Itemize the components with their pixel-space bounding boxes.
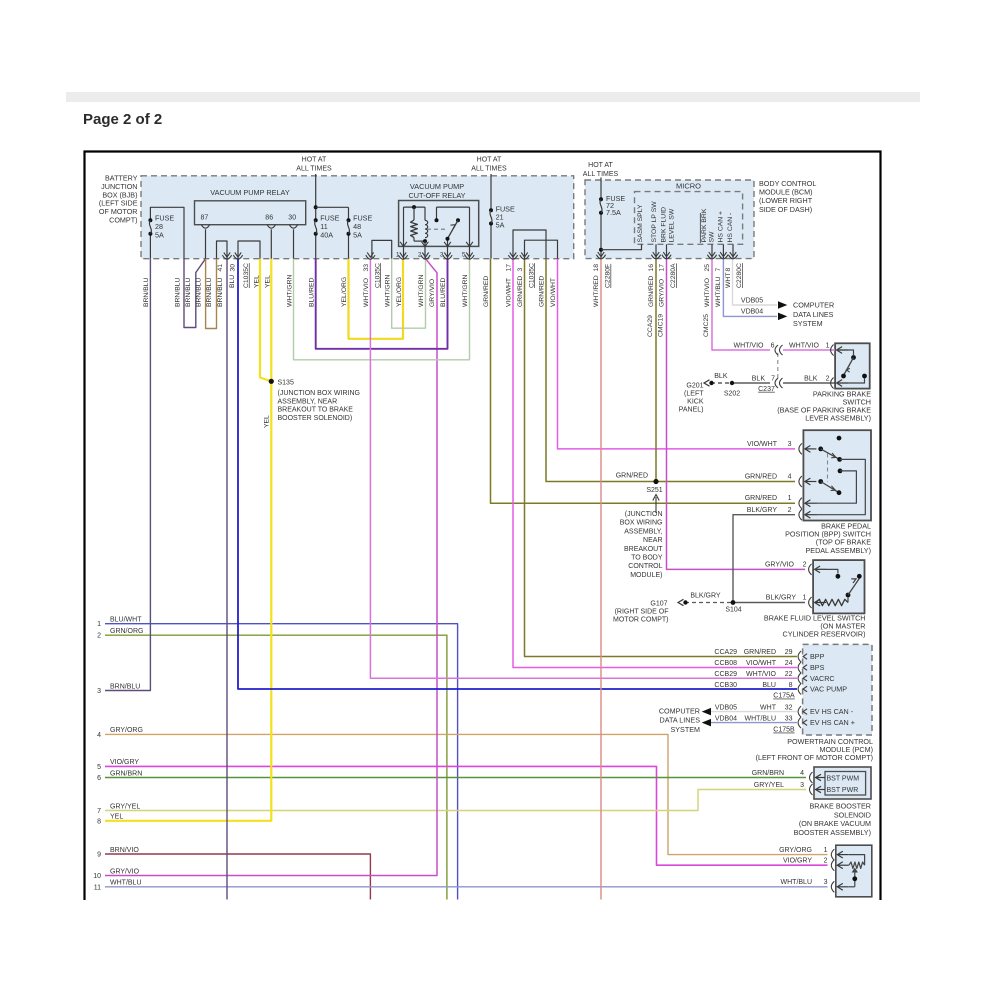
svg-text:EV HS CAN -: EV HS CAN - xyxy=(810,707,854,716)
svg-text:GRY/VIO: GRY/VIO xyxy=(659,279,666,307)
svg-text:(RIGHT SIDE OF: (RIGHT SIDE OF xyxy=(615,609,669,616)
svg-text:GRN/BRN: GRN/BRN xyxy=(752,770,784,777)
svg-text:MODULE): MODULE) xyxy=(630,572,662,579)
svg-text:C237: C237 xyxy=(758,386,775,393)
svg-text:4: 4 xyxy=(97,732,101,739)
svg-text:17: 17 xyxy=(659,264,666,272)
svg-text:87: 87 xyxy=(201,215,209,222)
svg-text:GRY/VIO: GRY/VIO xyxy=(110,868,140,875)
svg-text:CUT-OFF RELAY: CUT-OFF RELAY xyxy=(408,191,465,200)
svg-text:EV HS CAN +: EV HS CAN + xyxy=(810,718,855,727)
svg-text:BLU: BLU xyxy=(762,682,776,689)
svg-text:10: 10 xyxy=(93,873,101,880)
svg-text:VDB05: VDB05 xyxy=(741,297,763,304)
svg-text:C1035C: C1035C xyxy=(528,263,535,288)
svg-text:G201: G201 xyxy=(686,382,703,389)
svg-text:22: 22 xyxy=(785,671,793,678)
svg-text:BOX WIRING: BOX WIRING xyxy=(620,520,663,527)
svg-text:BRN/BLU: BRN/BLU xyxy=(175,277,182,307)
svg-text:BRN/VIO: BRN/VIO xyxy=(110,847,139,854)
svg-text:VACUUM PUMP: VACUUM PUMP xyxy=(410,182,464,191)
svg-text:6: 6 xyxy=(771,342,775,349)
svg-text:(ON BRAKE VACUUM: (ON BRAKE VACUUM xyxy=(799,819,871,828)
svg-text:COMPUTER: COMPUTER xyxy=(793,301,834,310)
svg-text:SW: SW xyxy=(708,231,715,243)
svg-text:WHT/GRN: WHT/GRN xyxy=(385,274,392,307)
svg-text:BLK: BLK xyxy=(752,375,766,382)
svg-text:DATA LINES: DATA LINES xyxy=(793,310,834,319)
svg-text:GRN/RED: GRN/RED xyxy=(539,276,546,307)
svg-text:COMPT): COMPT) xyxy=(109,216,137,225)
svg-text:5A: 5A xyxy=(353,230,362,239)
svg-text:LEVER ASSEMBLY): LEVER ASSEMBLY) xyxy=(805,414,871,423)
svg-text:86: 86 xyxy=(265,215,273,222)
svg-text:GRY/YEL: GRY/YEL xyxy=(110,803,140,810)
svg-text:BPS: BPS xyxy=(810,663,825,672)
svg-text:VAC PUMP: VAC PUMP xyxy=(810,685,847,694)
svg-text:MOTOR COMPT): MOTOR COMPT) xyxy=(613,617,668,624)
svg-text:7: 7 xyxy=(715,268,722,272)
svg-text:WHT/VIO: WHT/VIO xyxy=(363,278,370,307)
svg-text:CMC19: CMC19 xyxy=(657,314,664,337)
svg-text:BLU/RED: BLU/RED xyxy=(440,277,447,307)
svg-text:8: 8 xyxy=(97,818,101,825)
svg-text:11: 11 xyxy=(94,884,101,891)
svg-text:BST PWR: BST PWR xyxy=(827,787,859,794)
svg-text:(JUNCTION: (JUNCTION xyxy=(625,511,663,518)
svg-text:WHT/VIO: WHT/VIO xyxy=(704,278,711,307)
svg-text:WHT: WHT xyxy=(725,273,732,288)
svg-text:9: 9 xyxy=(97,852,101,859)
svg-text:HS CAN +: HS CAN + xyxy=(717,211,724,243)
svg-text:3: 3 xyxy=(824,879,828,886)
svg-text:CCB30: CCB30 xyxy=(714,682,737,689)
svg-text:4: 4 xyxy=(788,473,792,480)
svg-text:GRN/RED: GRN/RED xyxy=(745,473,777,480)
svg-text:32: 32 xyxy=(785,704,793,711)
svg-text:HOT AT: HOT AT xyxy=(588,162,613,169)
svg-text:8: 8 xyxy=(725,268,732,272)
svg-text:GRN/RED: GRN/RED xyxy=(648,276,655,307)
svg-text:WHT/BLU: WHT/BLU xyxy=(745,715,777,722)
svg-text:SIDE OF DASH): SIDE OF DASH) xyxy=(759,205,812,214)
svg-text:CMC25: CMC25 xyxy=(703,314,710,337)
svg-text:WHT/VIO: WHT/VIO xyxy=(789,342,819,349)
svg-text:17: 17 xyxy=(506,264,513,272)
svg-text:3: 3 xyxy=(788,441,792,448)
svg-text:WHT: WHT xyxy=(760,704,777,711)
svg-text:16: 16 xyxy=(648,264,655,272)
svg-text:GRN/BRN: GRN/BRN xyxy=(110,770,142,777)
svg-text:PEDAL ASSEMBLY): PEDAL ASSEMBLY) xyxy=(805,546,871,555)
svg-text:4: 4 xyxy=(800,770,804,777)
svg-text:ASSEMBLY, NEAR: ASSEMBLY, NEAR xyxy=(278,398,338,405)
svg-text:STOP LP SW: STOP LP SW xyxy=(651,201,658,243)
svg-text:YEL: YEL xyxy=(253,275,260,288)
svg-text:SYSTEM: SYSTEM xyxy=(793,319,823,328)
svg-text:GRN/RED: GRN/RED xyxy=(744,649,776,656)
svg-text:ALL TIMES: ALL TIMES xyxy=(296,166,332,173)
svg-text:VIO/GRY: VIO/GRY xyxy=(783,858,812,865)
svg-text:BRN/BLU: BRN/BLU xyxy=(196,277,203,307)
svg-text:BLU/RED: BLU/RED xyxy=(309,277,316,307)
svg-text:BLK/GRY: BLK/GRY xyxy=(690,593,721,600)
svg-text:CONTROL: CONTROL xyxy=(628,563,662,570)
svg-text:LEVEL SW: LEVEL SW xyxy=(668,208,675,242)
svg-text:1: 1 xyxy=(396,252,400,259)
svg-text:WHT/BLU: WHT/BLU xyxy=(781,879,813,886)
svg-text:GRY/VIO: GRY/VIO xyxy=(765,561,795,568)
svg-text:33: 33 xyxy=(785,715,793,722)
svg-text:C175B: C175B xyxy=(773,727,795,734)
svg-text:COMPUTER: COMPUTER xyxy=(659,707,700,716)
svg-text:C1035C: C1035C xyxy=(243,263,250,288)
svg-text:CCA29: CCA29 xyxy=(647,315,654,337)
svg-text:SYSTEM: SYSTEM xyxy=(670,725,700,734)
svg-text:HOT AT: HOT AT xyxy=(302,157,327,164)
svg-text:YEL: YEL xyxy=(264,275,271,288)
svg-text:7: 7 xyxy=(97,808,101,815)
svg-text:KICK: KICK xyxy=(687,399,704,406)
svg-text:2: 2 xyxy=(824,858,828,865)
svg-text:5A: 5A xyxy=(496,221,505,230)
svg-text:G107: G107 xyxy=(650,601,667,608)
svg-text:5: 5 xyxy=(97,764,101,771)
svg-text:WHT/BLU: WHT/BLU xyxy=(715,276,722,307)
svg-text:3: 3 xyxy=(97,688,101,695)
svg-text:BLU/WHT: BLU/WHT xyxy=(110,617,142,624)
svg-text:YEL: YEL xyxy=(110,814,123,821)
svg-text:WHT/BLU: WHT/BLU xyxy=(110,880,142,887)
svg-text:BRN/BLU: BRN/BLU xyxy=(185,277,192,307)
svg-text:1: 1 xyxy=(826,342,830,349)
svg-text:VIO/WHT: VIO/WHT xyxy=(747,441,778,448)
svg-text:2: 2 xyxy=(803,561,807,568)
svg-text:VIO/WHT: VIO/WHT xyxy=(746,660,777,667)
svg-text:YEL: YEL xyxy=(264,415,271,428)
svg-text:29: 29 xyxy=(785,649,793,656)
svg-text:GRY/ORG: GRY/ORG xyxy=(779,847,812,854)
svg-text:GRN/RED: GRN/RED xyxy=(517,276,524,307)
svg-text:PARK BRK: PARK BRK xyxy=(701,208,708,242)
svg-text:Page 2 of 2: Page 2 of 2 xyxy=(83,111,162,128)
svg-text:5A: 5A xyxy=(155,230,164,239)
svg-text:1: 1 xyxy=(824,847,828,854)
svg-text:30: 30 xyxy=(288,215,296,222)
svg-text:BOOSTER ASSEMBLY): BOOSTER ASSEMBLY) xyxy=(794,828,871,837)
svg-text:18: 18 xyxy=(593,264,600,272)
svg-text:BLK: BLK xyxy=(804,375,818,382)
svg-text:C1035C: C1035C xyxy=(374,263,381,288)
svg-text:YEL/ORG: YEL/ORG xyxy=(396,277,403,307)
svg-text:ALL TIMES: ALL TIMES xyxy=(471,166,507,173)
svg-text:GRN/RED: GRN/RED xyxy=(745,495,777,502)
svg-text:BLK: BLK xyxy=(714,373,728,380)
svg-text:1: 1 xyxy=(97,621,101,628)
svg-text:HOT AT: HOT AT xyxy=(477,157,502,164)
svg-text:C175A: C175A xyxy=(773,693,795,700)
svg-text:2: 2 xyxy=(97,633,101,640)
svg-text:WHT/VIO: WHT/VIO xyxy=(746,671,776,678)
svg-text:CCB29: CCB29 xyxy=(714,671,737,678)
svg-text:NEAR: NEAR xyxy=(643,537,662,544)
svg-text:S104: S104 xyxy=(725,607,741,614)
svg-text:S135: S135 xyxy=(278,380,294,387)
svg-text:WHT/GRN: WHT/GRN xyxy=(462,274,469,307)
svg-text:(JUNCTION BOX WIRING: (JUNCTION BOX WIRING xyxy=(278,390,360,397)
svg-text:BRN/BLU: BRN/BLU xyxy=(217,277,224,307)
svg-text:VDB04: VDB04 xyxy=(715,715,737,722)
svg-text:BRAKE BOOSTER: BRAKE BOOSTER xyxy=(809,802,871,811)
svg-text:BLK/GRY: BLK/GRY xyxy=(766,595,797,602)
svg-text:WHT/RED: WHT/RED xyxy=(593,275,600,307)
svg-text:1: 1 xyxy=(803,595,807,602)
svg-text:(LEFT: (LEFT xyxy=(684,390,704,397)
svg-text:ALL TIMES: ALL TIMES xyxy=(583,171,619,178)
svg-text:7.5A: 7.5A xyxy=(606,208,621,217)
svg-text:GRY/YEL: GRY/YEL xyxy=(754,782,784,789)
svg-text:SOLENOID: SOLENOID xyxy=(834,810,871,819)
svg-text:BRN/BLU: BRN/BLU xyxy=(206,277,213,307)
svg-text:BST PWM: BST PWM xyxy=(827,775,860,782)
svg-text:BREAKOUT: BREAKOUT xyxy=(624,546,663,553)
svg-text:BRN/BLU: BRN/BLU xyxy=(110,683,140,690)
svg-text:VIO/WHT: VIO/WHT xyxy=(550,278,557,307)
svg-text:VDB04: VDB04 xyxy=(741,309,763,316)
svg-text:25: 25 xyxy=(704,264,711,272)
svg-text:C2280F: C2280F xyxy=(605,264,612,288)
svg-text:WHT/GRN: WHT/GRN xyxy=(418,274,425,307)
svg-text:PANEL): PANEL) xyxy=(679,407,704,414)
svg-text:24: 24 xyxy=(785,660,793,667)
svg-text:41: 41 xyxy=(217,264,224,272)
svg-text:GRY/ORG: GRY/ORG xyxy=(110,727,143,734)
svg-text:BPP: BPP xyxy=(810,652,825,661)
svg-text:6: 6 xyxy=(97,775,101,782)
svg-text:C2280C: C2280C xyxy=(736,263,743,288)
svg-text:VDB05: VDB05 xyxy=(715,704,737,711)
svg-text:3: 3 xyxy=(517,268,524,272)
svg-text:CCA29: CCA29 xyxy=(714,649,737,656)
svg-text:ASSEMBLY,: ASSEMBLY, xyxy=(624,528,662,535)
svg-text:BOOSTER SOLENOID): BOOSTER SOLENOID) xyxy=(278,415,353,422)
svg-text:DATA LINES: DATA LINES xyxy=(660,716,701,725)
svg-text:GRN/RED: GRN/RED xyxy=(616,473,648,480)
svg-text:3: 3 xyxy=(800,782,804,789)
svg-text:BLK/GRY: BLK/GRY xyxy=(747,507,778,514)
svg-text:TO BODY: TO BODY xyxy=(631,555,663,562)
svg-text:BREAKOUT TO BRAKE: BREAKOUT TO BRAKE xyxy=(278,407,354,414)
svg-text:VIO/WHT: VIO/WHT xyxy=(506,278,513,307)
svg-text:40A: 40A xyxy=(320,230,333,239)
svg-text:(LEFT FRONT OF MOTOR COMPT): (LEFT FRONT OF MOTOR COMPT) xyxy=(756,753,873,762)
svg-text:33: 33 xyxy=(363,264,370,272)
svg-text:GRN/ORG: GRN/ORG xyxy=(110,628,143,635)
svg-text:VACRC: VACRC xyxy=(810,674,835,683)
svg-text:VIO/GRY: VIO/GRY xyxy=(110,759,139,766)
svg-text:HS CAN -: HS CAN - xyxy=(727,213,734,243)
svg-text:C2280A: C2280A xyxy=(670,263,677,288)
svg-text:BRN/BLU: BRN/BLU xyxy=(143,277,150,307)
svg-text:SASM SPLY: SASM SPLY xyxy=(637,204,644,242)
svg-text:S202: S202 xyxy=(724,390,740,397)
svg-text:CCB08: CCB08 xyxy=(714,660,737,667)
svg-text:S251: S251 xyxy=(646,487,662,494)
svg-text:GRY/VIO: GRY/VIO xyxy=(429,279,436,307)
svg-text:BRK FLUID: BRK FLUID xyxy=(660,207,667,243)
svg-text:30: 30 xyxy=(229,264,236,272)
svg-text:2: 2 xyxy=(826,375,830,382)
svg-text:GRN/RED: GRN/RED xyxy=(483,276,490,307)
svg-text:WHT/GRN: WHT/GRN xyxy=(286,274,293,307)
svg-text:YEL/ORG: YEL/ORG xyxy=(341,277,348,307)
svg-text:8: 8 xyxy=(789,682,793,689)
svg-text:7: 7 xyxy=(771,375,775,382)
svg-text:VACUUM PUMP RELAY: VACUUM PUMP RELAY xyxy=(210,188,290,197)
svg-text:2: 2 xyxy=(788,507,792,514)
svg-text:WHT/VIO: WHT/VIO xyxy=(734,342,764,349)
svg-text:BLU: BLU xyxy=(229,275,236,288)
svg-text:1: 1 xyxy=(788,495,792,502)
svg-text:MICRO: MICRO xyxy=(676,181,701,190)
svg-text:CYLINDER RESERVOIR): CYLINDER RESERVOIR) xyxy=(783,630,866,639)
